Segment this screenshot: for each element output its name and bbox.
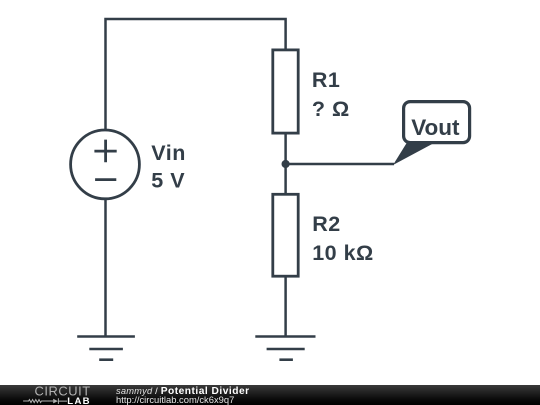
node junction dot: [282, 160, 290, 168]
ground symbol left: [77, 337, 135, 360]
wire top from Vin top to R1 top: [106, 19, 286, 129]
svg-text:LAB: LAB: [67, 396, 91, 405]
svg-text:Vin: Vin: [151, 141, 186, 165]
voltage source V1 circle: [71, 130, 140, 199]
Vout callout tail: [393, 143, 435, 165]
svg-text:10 kΩ: 10 kΩ: [312, 241, 374, 265]
wire from R1 bottom to node: [284, 134, 287, 165]
svg-text:Vout: Vout: [411, 115, 460, 140]
svg-text:5 V: 5 V: [151, 168, 185, 192]
resistor R2 body: [273, 194, 298, 276]
wire from R2 bottom to ground: [284, 276, 287, 337]
wire from node to Vout tail: [286, 163, 394, 166]
wire from Vin bottom to ground: [104, 199, 107, 337]
svg-text:R1: R1: [312, 68, 340, 92]
logo diode symbol: [53, 398, 58, 403]
wire from node down to R2: [284, 164, 287, 195]
logo resistor zigzag: [23, 399, 53, 402]
footer credit bar: [0, 385, 540, 405]
resistor R1 body: [273, 50, 298, 133]
Vout callout box: [404, 102, 470, 143]
voltage source minus sign: [95, 178, 116, 181]
voltage source plus sign: [94, 140, 116, 163]
svg-text:R2: R2: [312, 212, 340, 236]
CircuitLab logo: [0, 385, 110, 405]
footer text: [115, 384, 117, 386]
ground symbol right: [255, 337, 315, 360]
svg-text:? Ω: ? Ω: [312, 97, 350, 121]
